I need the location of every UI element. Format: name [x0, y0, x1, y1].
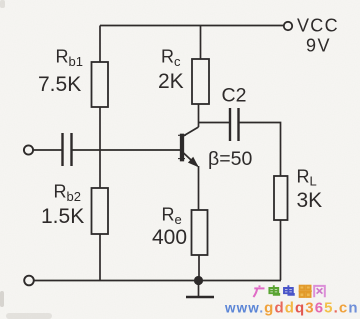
glyph qi (orange) [299, 286, 312, 297]
glyph dian 1 (green) [269, 285, 279, 295]
svg-text:7.5K: 7.5K [38, 73, 81, 96]
wire input to C1 [33, 149, 61, 151]
resistor Rb1 [92, 62, 109, 107]
resistor Rc [192, 59, 209, 104]
wire emitter to Re [198, 166, 200, 210]
wire collector to Rc [198, 104, 200, 127]
resistor RL [274, 176, 288, 220]
transistor Q1 collector lead [183, 127, 199, 137]
watermark site name (drawn glyphs, colorful logo) [253, 285, 324, 297]
wire Rb2 bottom [99, 234, 101, 280]
wire top VCC rail [100, 25, 284, 27]
resistor Re [192, 210, 208, 255]
svg-text:C2: C2 [222, 85, 247, 107]
glyph guang (pink) [253, 285, 264, 297]
svg-text:VCC: VCC [297, 16, 339, 36]
ground terminal bottom-left [24, 276, 34, 286]
ground [198, 281, 200, 297]
input terminal [24, 145, 33, 154]
wire Rc top [200, 26, 202, 60]
wire collector to C2 [199, 122, 230, 124]
svg-text:3K: 3K [297, 189, 323, 212]
svg-text:9V: 9V [306, 36, 331, 56]
capacitor C1 [63, 133, 72, 166]
wire RL bottom [280, 220, 282, 280]
transistor Q1 emitter arrow [188, 157, 199, 167]
wire Rb1 to Rb2 [99, 107, 101, 188]
resistor Rb2 [92, 188, 109, 234]
junction node emitter-ground [194, 276, 203, 285]
svg-text:2K: 2K [158, 70, 184, 93]
wire bottom ground rail [34, 280, 281, 282]
capacitor C2 [230, 108, 239, 141]
svg-text:β=50: β=50 [208, 148, 252, 170]
svg-text:400: 400 [152, 226, 187, 249]
wire Re bottom [198, 255, 200, 280]
svg-text:1.5K: 1.5K [41, 205, 84, 228]
VCC terminal [284, 22, 292, 30]
transistor Q1 emitter lead [183, 152, 198, 166]
wire C2 to RL [240, 123, 281, 177]
glyph dian 2 (blue) [284, 285, 294, 295]
logo glyph wang (pink) [314, 286, 325, 297]
transistor Q1 base bar [181, 135, 184, 161]
scan smudges [0, 0, 52, 319]
svg-text:www.gddq365.cn: www.gddq365.cn [224, 300, 359, 317]
wire Rb1 top [99, 26, 101, 63]
wire C1 to base [73, 149, 181, 151]
